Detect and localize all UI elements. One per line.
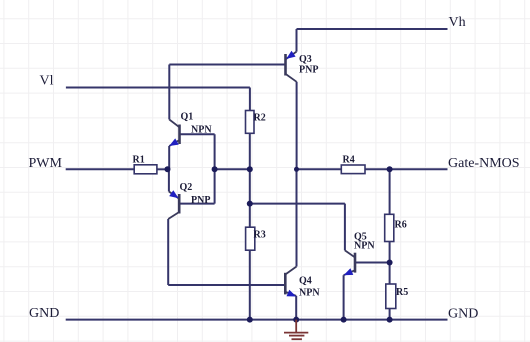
svg-text:Q3: Q3 (299, 54, 312, 65)
svg-text:R2: R2 (254, 113, 266, 124)
svg-text:Vl: Vl (40, 74, 54, 89)
svg-text:Q1: Q1 (181, 112, 194, 123)
svg-text:PNP: PNP (299, 65, 318, 76)
svg-text:R1: R1 (133, 155, 145, 166)
svg-text:GND: GND (29, 306, 59, 321)
svg-text:R3: R3 (254, 230, 266, 241)
svg-text:R5: R5 (396, 287, 408, 298)
svg-text:R4: R4 (343, 155, 355, 166)
svg-text:Q4: Q4 (299, 276, 312, 287)
svg-text:NPN: NPN (191, 125, 212, 136)
svg-text:PNP: PNP (191, 195, 210, 206)
svg-text:GND: GND (448, 307, 478, 322)
svg-text:NPN: NPN (299, 288, 320, 299)
svg-text:NPN: NPN (354, 241, 375, 252)
svg-text:Gate-NMOS: Gate-NMOS (448, 156, 520, 171)
svg-text:Vh: Vh (449, 15, 466, 30)
svg-text:R6: R6 (395, 220, 407, 231)
svg-text:Q2: Q2 (180, 182, 193, 193)
svg-text:PWM: PWM (29, 156, 63, 171)
